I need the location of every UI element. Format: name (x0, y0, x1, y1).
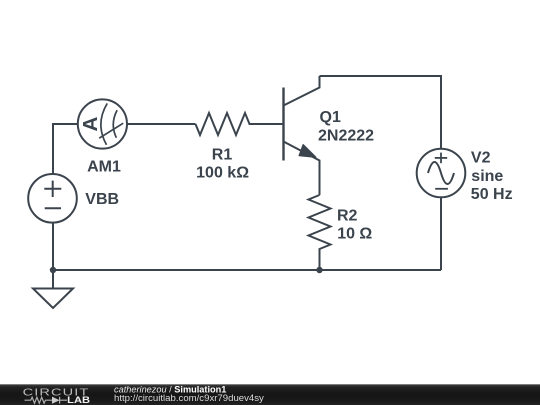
svg-text:50 Hz: 50 Hz (471, 186, 513, 203)
svg-text:V2: V2 (471, 150, 491, 167)
svg-text:A: A (79, 116, 102, 131)
svg-text:LAB: LAB (67, 395, 90, 405)
svg-text:R2: R2 (337, 207, 358, 224)
svg-text:http://circuitlab.com/c9xr79du: http://circuitlab.com/c9xr79duev4sy (114, 393, 264, 404)
svg-text:100 kΩ: 100 kΩ (196, 165, 249, 182)
svg-text:R1: R1 (212, 146, 233, 163)
svg-text:AM1: AM1 (87, 158, 121, 175)
svg-text:Q1: Q1 (320, 109, 341, 126)
svg-text:10 Ω: 10 Ω (337, 226, 372, 243)
svg-text:2N2222: 2N2222 (318, 128, 374, 145)
svg-text:VBB: VBB (85, 191, 119, 208)
svg-text:sine: sine (471, 168, 503, 185)
